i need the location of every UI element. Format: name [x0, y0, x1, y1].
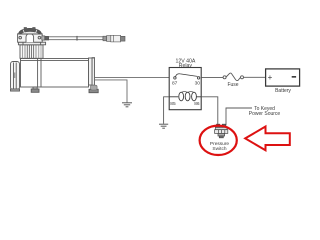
- wire: pressure switch to keyed power source: [225, 108, 252, 125]
- battery BT1: [266, 69, 300, 86]
- wire: compressor lead conduit (up the end cap): [92, 58, 94, 85]
- compressor head outlet fitting: [42, 36, 49, 40]
- wire grommet at end cap: [91, 85, 98, 90]
- relay switch blade: [175, 74, 197, 77]
- compressor M1 (air compressor body): [11, 28, 99, 93]
- svg-text:86: 86: [194, 101, 200, 107]
- svg-text:+: +: [268, 73, 273, 82]
- svg-text:Power Source: Power Source: [249, 111, 281, 117]
- svg-text:Relay: Relay: [179, 63, 193, 69]
- svg-text:Battery: Battery: [275, 88, 291, 94]
- head block with ears: [18, 34, 43, 42]
- wire: relay pin 86 to pressure switch: [201, 97, 218, 125]
- motor body: [21, 59, 89, 88]
- battery - terminal label: [292, 76, 296, 78]
- relay pin 30 terminal: [197, 77, 199, 79]
- ribbed cylinder / neck: [20, 45, 43, 59]
- pressure switch S1: [215, 124, 228, 138]
- ground (compressor): [122, 103, 132, 107]
- relay coil: [169, 92, 201, 101]
- head bottom flange band: [18, 42, 45, 45]
- red highlight circle around pressure switch: [200, 126, 237, 155]
- feet: [33, 87, 37, 89]
- fuse F1: [223, 73, 243, 81]
- cap bolt nubs: [24, 28, 26, 30]
- red arrow callout pointing at pressure switch: [245, 127, 290, 151]
- end cap right: [89, 58, 93, 85]
- wire: compressor ground lead: [94, 80, 127, 103]
- compressor leader hose: [49, 36, 103, 41]
- wire: fuse to battery: [244, 76, 266, 78]
- ground (relay coil): [159, 124, 168, 128]
- wire: compressor positive lead to relay pin 87: [94, 76, 169, 78]
- relay K1 box: [169, 68, 201, 110]
- svg-text:85: 85: [170, 101, 176, 107]
- wire: relay pin 85 to ground: [164, 97, 170, 124]
- hose end fitting: [103, 35, 125, 42]
- relay pin 87 terminal: [174, 77, 176, 79]
- svg-text:Fuse: Fuse: [227, 82, 238, 88]
- front cap (left end): [11, 62, 20, 90]
- top cap dome with dark crown: [19, 28, 42, 34]
- svg-text:30: 30: [195, 81, 201, 87]
- svg-text:87: 87: [172, 81, 178, 87]
- svg-text:Switch: Switch: [212, 146, 226, 152]
- wire: relay pin 30 to fuse: [201, 76, 223, 78]
